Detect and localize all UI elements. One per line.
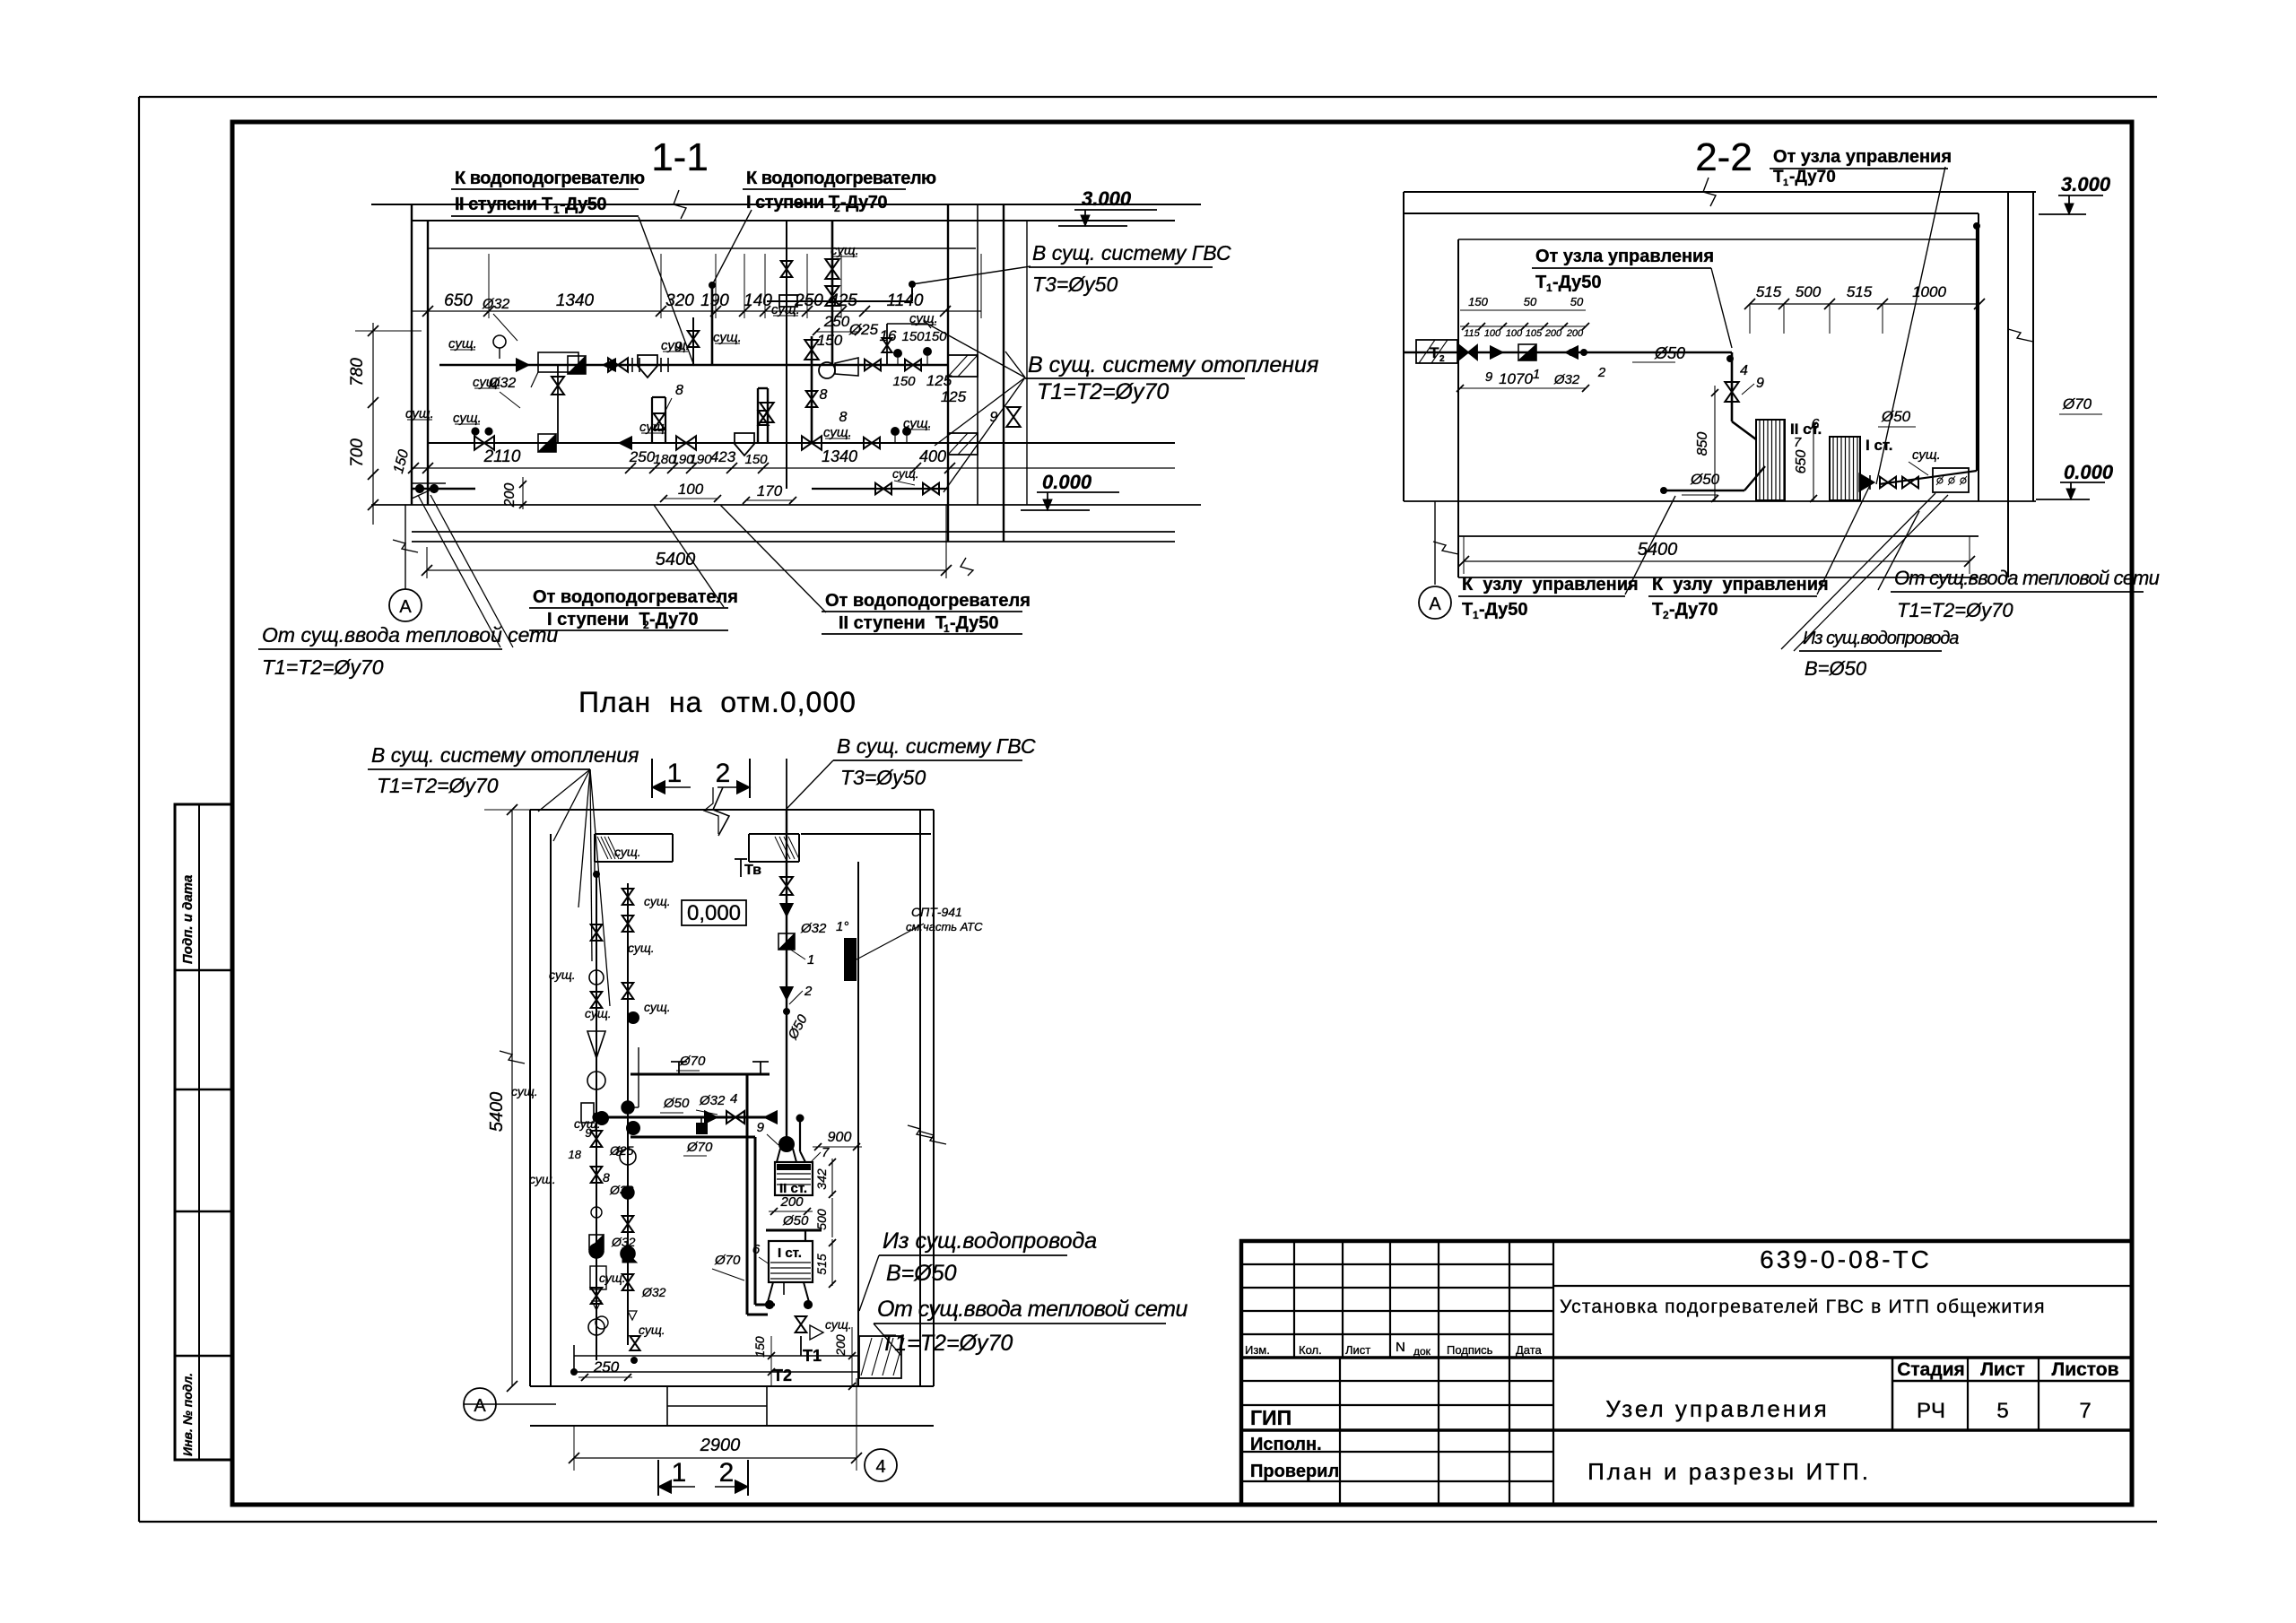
- svg-text:1: 1: [553, 204, 560, 216]
- svg-text:200: 200: [502, 483, 517, 508]
- svg-text:Т1=Т2=Øу70: Т1=Т2=Øу70: [262, 655, 384, 679]
- svg-text:320: 320: [665, 291, 694, 310]
- svg-text:400: 400: [919, 447, 946, 465]
- svg-text:-Ду50: -Ду50: [1479, 600, 1528, 620]
- svg-text:сущ.: сущ.: [599, 1271, 626, 1285]
- svg-text:Ø32: Ø32: [1553, 372, 1580, 387]
- svg-text:150: 150: [817, 332, 843, 349]
- svg-text:1-1: 1-1: [651, 135, 709, 179]
- svg-text:2110: 2110: [483, 447, 521, 466]
- svg-text:План на отм.0,000: План на отм.0,000: [578, 686, 857, 718]
- svg-text:-Ду70: -Ду70: [1669, 600, 1718, 620]
- svg-text:Т1: Т1: [803, 1347, 822, 1365]
- svg-text:сущ.: сущ.: [405, 406, 434, 421]
- svg-text:сущ.: сущ.: [823, 425, 852, 440]
- svg-text:0.000: 0.000: [2064, 461, 2114, 483]
- svg-text:сущ.: сущ.: [644, 894, 671, 908]
- svg-text:8: 8: [603, 1170, 610, 1185]
- svg-text:Ø70: Ø70: [686, 1140, 713, 1155]
- svg-text:сущ.: сущ.: [473, 375, 501, 390]
- svg-text:От водоподогревателя: От водоподогревателя: [533, 587, 738, 607]
- svg-text:1000: 1000: [1912, 283, 1946, 300]
- svg-text:650: 650: [1794, 450, 1809, 474]
- svg-text:Кол.: Кол.: [1299, 1343, 1322, 1357]
- svg-text:Проверил: Проверил: [1250, 1462, 1339, 1481]
- svg-text:От водоподогревателя: От водоподогревателя: [825, 591, 1031, 611]
- svg-text:Ø25: Ø25: [848, 321, 879, 338]
- svg-text:5400: 5400: [487, 1092, 507, 1133]
- svg-text:2: 2: [643, 619, 649, 631]
- svg-text:6: 6: [752, 1242, 761, 1257]
- svg-text:50: 50: [1570, 295, 1584, 308]
- svg-text:1: 1: [1533, 367, 1540, 382]
- svg-text:7: 7: [2079, 1399, 2091, 1423]
- svg-text:План и разрезы ИТП.: План и разрезы ИТП.: [1587, 1458, 1871, 1485]
- svg-text:0,000: 0,000: [687, 901, 741, 925]
- svg-text:9: 9: [1485, 369, 1493, 385]
- svg-text:100: 100: [1484, 328, 1501, 339]
- svg-text:9: 9: [1756, 376, 1764, 391]
- svg-text:650: 650: [444, 291, 473, 310]
- svg-text:Т3=Øу50: Т3=Øу50: [840, 766, 926, 789]
- svg-text:Ø50: Ø50: [782, 1213, 809, 1228]
- svg-text:-Ду70: -Ду70: [649, 610, 699, 629]
- svg-text:Ø32: Ø32: [482, 297, 509, 312]
- svg-text:423: 423: [710, 448, 736, 465]
- svg-text:сущ.: сущ.: [511, 1084, 538, 1098]
- svg-text:От сущ.ввода тепловой сети: От сущ.ввода тепловой сети: [1894, 567, 2160, 589]
- svg-text:I ступени Т: I ступени Т: [746, 193, 839, 213]
- svg-text:сущ.: сущ.: [639, 420, 668, 435]
- svg-text:I ст.: I ст.: [1865, 437, 1892, 454]
- svg-text:док: док: [1413, 1345, 1431, 1358]
- svg-text:9: 9: [585, 1125, 592, 1140]
- svg-text:От узла управления: От узла управления: [1773, 147, 1952, 167]
- svg-text:0.000: 0.000: [1042, 471, 1092, 493]
- svg-text:В=Ø50: В=Ø50: [1805, 657, 1867, 680]
- svg-text:2: 2: [1439, 354, 1445, 364]
- svg-text:2900: 2900: [700, 1436, 741, 1455]
- svg-text:К водоподогревателю: К водоподогревателю: [746, 169, 936, 188]
- svg-text:Ø32: Ø32: [609, 1183, 634, 1197]
- svg-text:В=Ø50: В=Ø50: [886, 1261, 957, 1286]
- svg-text:Т: Т: [1535, 273, 1546, 292]
- svg-text:200: 200: [1566, 328, 1584, 339]
- svg-text:Ø32: Ø32: [699, 1093, 726, 1108]
- svg-text:150: 150: [924, 329, 947, 344]
- svg-text:От узла управления: От узла управления: [1535, 247, 1714, 266]
- svg-text:сущ.: сущ.: [713, 330, 742, 345]
- svg-text:Ø70: Ø70: [679, 1054, 706, 1069]
- svg-text:сущ.: сущ.: [903, 416, 932, 431]
- svg-text:сущ.: сущ.: [825, 1317, 852, 1332]
- svg-text:Стадия: Стадия: [1897, 1359, 1965, 1380]
- svg-text:8: 8: [839, 410, 848, 425]
- svg-text:500: 500: [1796, 283, 1822, 300]
- svg-text:2: 2: [719, 1458, 735, 1488]
- svg-text:1070: 1070: [1499, 370, 1533, 387]
- svg-text:В сущ. систему отопления: В сущ. систему отопления: [1028, 352, 1318, 378]
- svg-text:5400: 5400: [1638, 540, 1678, 560]
- svg-text:-Ду70: -Ду70: [1789, 168, 1836, 187]
- svg-text:342: 342: [814, 1168, 829, 1190]
- svg-text:Подпись: Подпись: [1447, 1343, 1493, 1357]
- svg-text:сущ.: сущ.: [661, 338, 690, 353]
- svg-text:Ø70: Ø70: [714, 1253, 741, 1268]
- svg-text:Подп. и дата: Подп. и дата: [180, 875, 196, 964]
- svg-text:-Ду50: -Ду50: [950, 613, 999, 633]
- svg-text:639-0-08-ТС: 639-0-08-ТС: [1760, 1245, 1932, 1273]
- svg-text:Лист: Лист: [1980, 1359, 2025, 1380]
- svg-text:-Ду50: -Ду50: [1552, 273, 1602, 292]
- svg-text:сущ.: сущ.: [1912, 447, 1941, 463]
- svg-text:2: 2: [1597, 365, 1606, 380]
- svg-text:1340: 1340: [822, 447, 857, 465]
- svg-text:190: 190: [689, 452, 712, 467]
- svg-text:1: 1: [807, 952, 814, 968]
- svg-text:1: 1: [1783, 178, 1788, 188]
- svg-text:1: 1: [1473, 609, 1479, 621]
- svg-text:1: 1: [672, 1458, 687, 1488]
- svg-text:4: 4: [1740, 363, 1748, 378]
- svg-text:сущ.: сущ.: [771, 302, 800, 317]
- svg-text:2: 2: [804, 984, 813, 999]
- svg-text:8: 8: [675, 383, 683, 398]
- svg-text:190: 190: [700, 291, 729, 310]
- svg-text:ГИП: ГИП: [1250, 1406, 1291, 1429]
- svg-text:Тв: Тв: [744, 863, 761, 878]
- svg-text:А: А: [399, 597, 412, 617]
- svg-text:4: 4: [875, 1457, 885, 1477]
- svg-text:125: 125: [941, 388, 967, 405]
- svg-text:Ø50: Ø50: [1654, 344, 1685, 362]
- svg-text:150: 150: [901, 329, 925, 344]
- svg-text:сущ.: сущ.: [628, 941, 655, 955]
- svg-text:250: 250: [629, 448, 656, 465]
- svg-text:Т: Т: [1462, 600, 1473, 620]
- svg-text:3.000: 3.000: [2061, 173, 2111, 195]
- svg-text:100: 100: [678, 481, 704, 498]
- svg-text:Т1=Т2=Øу70: Т1=Т2=Øу70: [377, 774, 499, 797]
- svg-text:Листов: Листов: [2051, 1359, 2118, 1380]
- svg-text:170: 170: [757, 482, 783, 499]
- svg-text:Ø50: Ø50: [1881, 408, 1911, 425]
- svg-text:150: 150: [744, 452, 768, 467]
- svg-text:Т3=Øу50: Т3=Øу50: [1032, 273, 1118, 296]
- svg-text:150: 150: [1468, 295, 1488, 308]
- svg-text:2-2: 2-2: [1695, 135, 1752, 179]
- svg-text:1: 1: [667, 759, 683, 788]
- svg-text:515: 515: [814, 1254, 829, 1275]
- svg-text:250: 250: [823, 313, 850, 330]
- svg-text:От сущ.ввода тепловой сети: От сущ.ввода тепловой сети: [262, 623, 558, 647]
- svg-text:Т: Т: [1430, 344, 1439, 361]
- svg-text:100: 100: [1506, 328, 1523, 339]
- svg-text:2: 2: [1663, 609, 1669, 621]
- svg-text:3.000: 3.000: [1082, 187, 1132, 210]
- svg-text:515: 515: [1847, 283, 1873, 300]
- svg-text:I ст.: I ст.: [778, 1245, 802, 1261]
- svg-text:150: 150: [892, 374, 916, 389]
- svg-text:8: 8: [615, 1144, 622, 1159]
- svg-text:Ø70: Ø70: [2062, 395, 2092, 412]
- svg-text:В сущ. систему ГВС: В сущ. систему ГВС: [837, 734, 1036, 758]
- svg-text:50: 50: [1524, 295, 1537, 308]
- svg-text:200: 200: [1544, 328, 1562, 339]
- svg-text:Ø32: Ø32: [611, 1235, 636, 1249]
- svg-text:К водоподогревателю: К водоподогревателю: [455, 169, 645, 188]
- svg-text:105: 105: [1526, 328, 1543, 339]
- svg-text:500: 500: [814, 1209, 829, 1230]
- svg-text:Из сущ.водопровода: Из сущ.водопровода: [1803, 629, 1959, 648]
- svg-text:900: 900: [828, 1130, 852, 1145]
- svg-text:сущ.: сущ.: [585, 1006, 612, 1020]
- svg-text:Т2: Т2: [773, 1367, 792, 1384]
- svg-text:Узел управления: Узел управления: [1605, 1395, 1829, 1422]
- svg-text:Установка подогревателей ГВС в: Установка подогревателей ГВС в ИТП общеж…: [1560, 1297, 2046, 1317]
- svg-text:200: 200: [833, 1334, 848, 1357]
- svg-text:сущ.: сущ.: [549, 968, 576, 982]
- svg-text:1: 1: [1546, 282, 1552, 294]
- svg-text:9: 9: [757, 1120, 765, 1135]
- svg-text:сущ.: сущ.: [529, 1172, 556, 1186]
- svg-text:РЧ: РЧ: [1917, 1399, 1945, 1423]
- svg-text:Дата: Дата: [1516, 1343, 1543, 1357]
- svg-text:200: 200: [779, 1194, 804, 1210]
- svg-text:1: 1: [944, 622, 950, 635]
- svg-text:Ø50: Ø50: [1690, 471, 1720, 488]
- svg-text:1°: 1°: [836, 919, 848, 934]
- svg-text:8: 8: [820, 387, 828, 403]
- svg-text:I ступени Т: I ступени Т: [547, 610, 650, 629]
- svg-text:сущ.: сущ.: [614, 845, 641, 859]
- svg-text:сущ.: сущ.: [639, 1323, 665, 1337]
- svg-text:780: 780: [348, 358, 367, 386]
- svg-text:Т: Т: [1652, 600, 1663, 620]
- svg-text:4: 4: [730, 1091, 737, 1107]
- svg-text:Ø50: Ø50: [663, 1096, 690, 1111]
- svg-text:К узлу управления: К узлу управления: [1652, 575, 1829, 595]
- svg-text:СПТ-941: СПТ-941: [911, 905, 962, 919]
- svg-text:Инв. № подл.: Инв. № подл.: [180, 1373, 195, 1456]
- svg-text:-Ду70: -Ду70: [840, 193, 887, 213]
- svg-text:1340: 1340: [556, 291, 595, 310]
- svg-text:В сущ. систему ГВС: В сущ. систему ГВС: [1032, 241, 1231, 265]
- svg-text:150: 150: [752, 1336, 767, 1358]
- svg-text:250: 250: [593, 1358, 620, 1376]
- svg-text:От сущ.ввода тепловой сети: От сущ.ввода тепловой сети: [877, 1297, 1187, 1322]
- svg-text:5400: 5400: [656, 550, 696, 569]
- svg-text:850: 850: [1695, 432, 1710, 456]
- svg-text:Т1=Т2=Øу70: Т1=Т2=Øу70: [881, 1331, 1013, 1356]
- svg-text:7: 7: [1794, 435, 1802, 450]
- svg-text:700: 700: [348, 438, 367, 467]
- svg-text:Т1=Т2=Øу70: Т1=Т2=Øу70: [1037, 379, 1169, 404]
- svg-text:Т1=Т2=Øу70: Т1=Т2=Øу70: [1897, 599, 2013, 621]
- svg-text:В сущ. систему отопления: В сущ. систему отопления: [371, 743, 639, 767]
- svg-text:7: 7: [822, 1145, 830, 1160]
- svg-text:А: А: [474, 1396, 486, 1416]
- svg-text:18: 18: [569, 1148, 582, 1161]
- svg-text:К узлу управления: К узлу управления: [1462, 575, 1639, 595]
- svg-text:Ø32: Ø32: [800, 921, 827, 936]
- svg-text:сущ.: сущ.: [644, 1000, 671, 1014]
- svg-text:сущ.: сущ.: [831, 243, 859, 258]
- svg-text:сущ.: сущ.: [453, 411, 482, 426]
- svg-text:Из сущ.водопровода: Из сущ.водопровода: [883, 1228, 1097, 1254]
- svg-text:Исполн.: Исполн.: [1250, 1435, 1322, 1454]
- svg-text:16: 16: [880, 327, 897, 344]
- svg-text:сущ.: сущ.: [448, 336, 477, 352]
- svg-text:Лист: Лист: [1345, 1343, 1370, 1357]
- svg-text:5: 5: [1996, 1399, 2008, 1423]
- svg-text:II ступени Т: II ступени Т: [839, 613, 946, 633]
- svg-text:Ø32: Ø32: [641, 1285, 666, 1299]
- svg-text:А: А: [1429, 595, 1441, 614]
- svg-text:сущ.: сущ.: [909, 311, 938, 326]
- svg-text:515: 515: [1756, 283, 1782, 300]
- svg-text:2: 2: [716, 759, 731, 788]
- svg-text:N: N: [1396, 1340, 1405, 1355]
- svg-text:Изм.: Изм.: [1245, 1343, 1270, 1357]
